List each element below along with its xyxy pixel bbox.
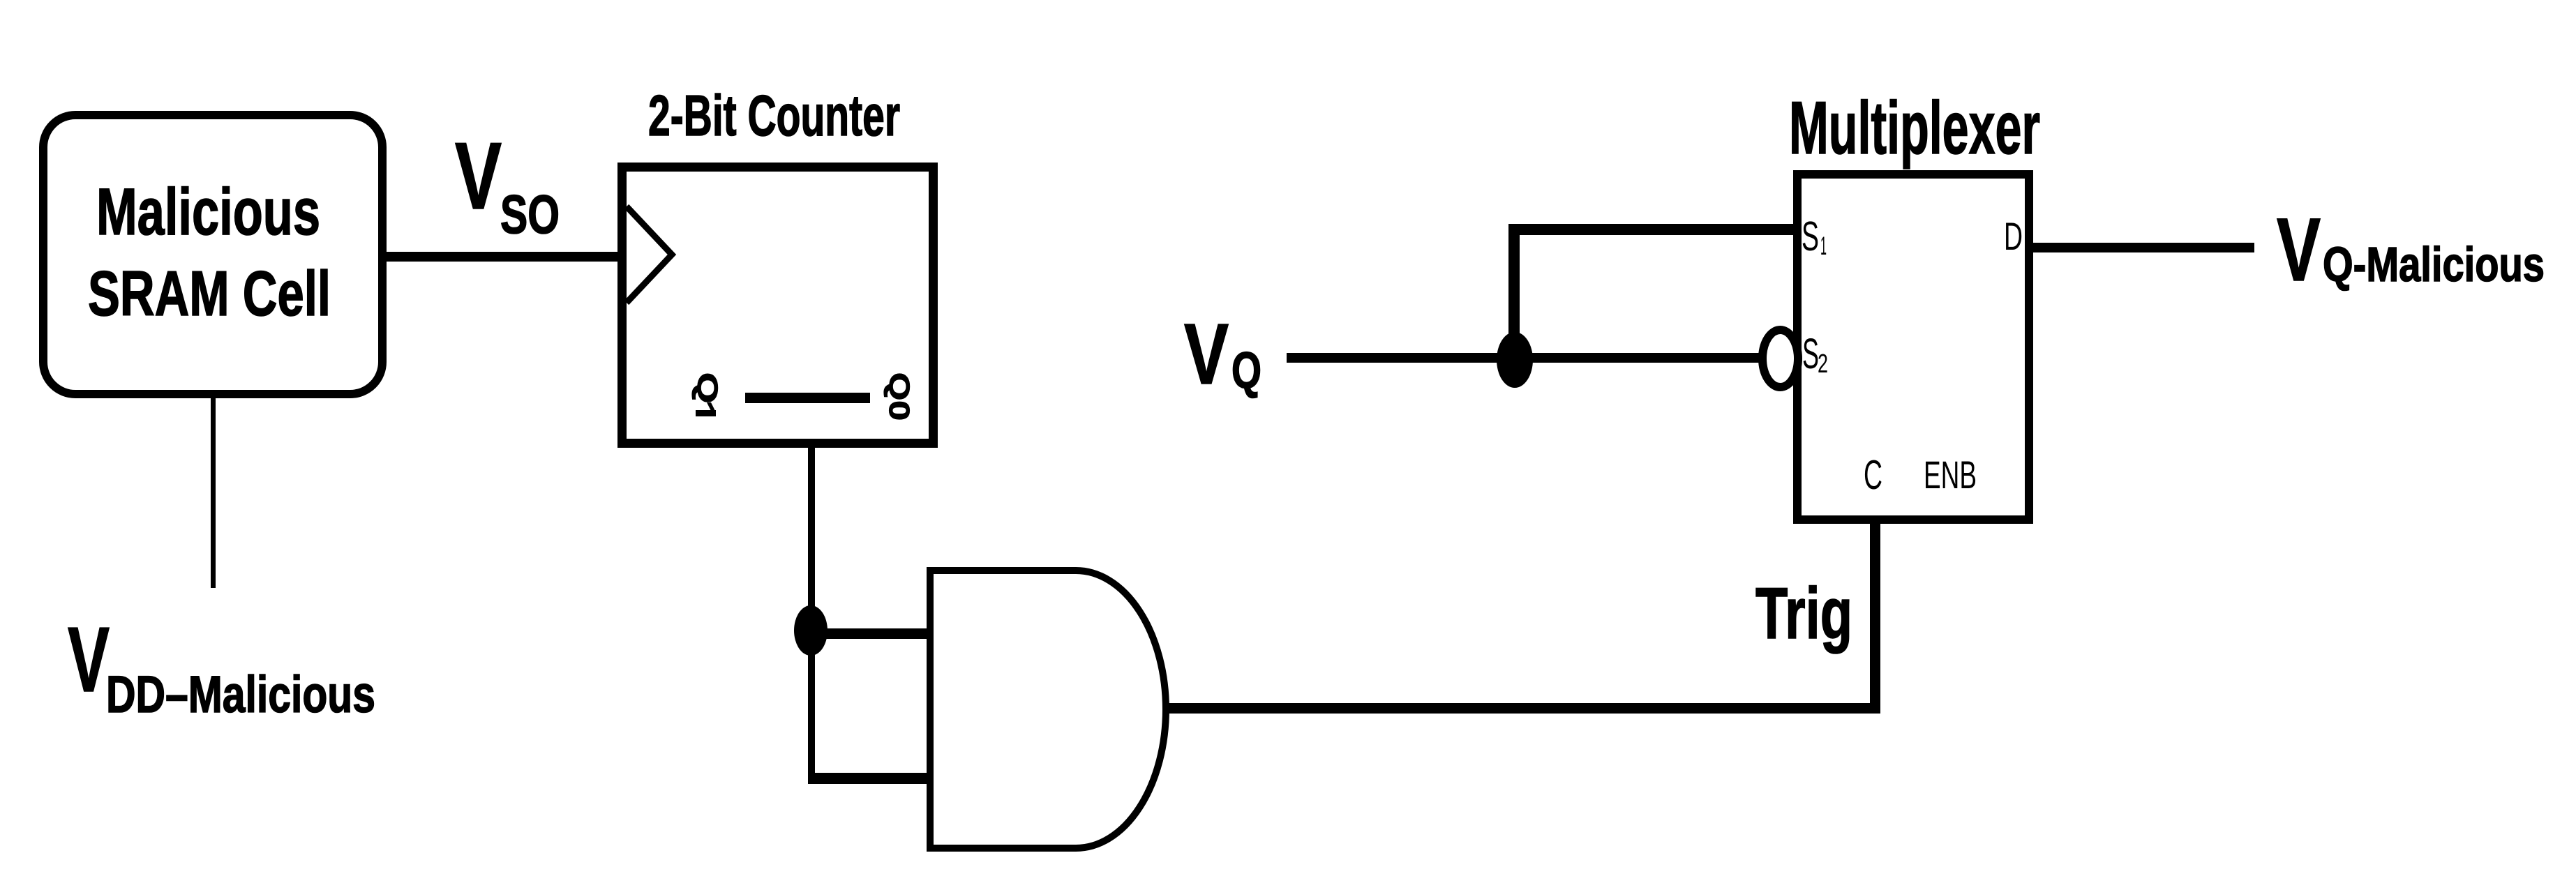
wire lower AND input stub	[808, 773, 931, 784]
block U2: 2-Bit Counter	[622, 83, 934, 444]
svg-text:V: V	[68, 608, 110, 711]
svg-text:V: V	[2277, 200, 2321, 300]
svg-text:S: S	[1802, 213, 1819, 259]
wire net VDD-Malicious from SRAM cell bottom	[211, 394, 216, 588]
wire upper AND input stub	[811, 628, 931, 639]
pin label ENB	[1924, 453, 1977, 497]
svg-text:Q0: Q0	[883, 372, 915, 421]
block U4: Multiplexer	[1789, 86, 2040, 520]
svg-text:S: S	[1802, 330, 1819, 377]
svg-text:ENB: ENB	[1924, 453, 1977, 497]
wire net VQ-Malicious from D output	[2029, 243, 2254, 252]
wire from counter output down to AND gate inputs	[808, 444, 815, 783]
wire from node B up and right to S1 pin	[1508, 224, 1797, 361]
label VDD-Malicious	[68, 608, 375, 723]
svg-text:V: V	[455, 123, 502, 229]
pin Q0 label (rotated)	[883, 372, 915, 421]
svg-text:C: C	[1864, 452, 1882, 498]
label VQ	[1184, 307, 1261, 402]
svg-text:Trig: Trig	[1755, 573, 1852, 654]
pin Q1 label (rotated)	[691, 372, 724, 416]
svg-text:SRAM Cell: SRAM Cell	[88, 259, 331, 329]
junction node B on VQ wire	[1497, 332, 1533, 388]
svg-text:D: D	[2004, 214, 2023, 258]
pin CLK: clock input triangle of counter	[627, 206, 672, 303]
junction node A on counter output wire	[794, 605, 828, 656]
pin label D	[2004, 214, 2023, 258]
overbar between Q1 and Q0	[745, 393, 870, 403]
wire net VQ to S2 bubble	[1287, 353, 1767, 363]
svg-text:2-Bit Counter: 2-Bit Counter	[648, 83, 900, 148]
inversion bubble at S2 input	[1762, 330, 1798, 387]
label Trig	[1755, 573, 1852, 654]
svg-text:2: 2	[1818, 349, 1828, 379]
svg-text:Malicious: Malicious	[96, 175, 320, 249]
block U1: Malicious SRAM Cell	[43, 115, 382, 394]
svg-text:Q: Q	[691, 372, 724, 403]
svg-text:SO: SO	[500, 183, 560, 245]
wire net Trig: AND output to multiplexer C pin	[1162, 519, 1880, 714]
pin label S2	[1802, 330, 1828, 379]
svg-text:Multiplexer: Multiplexer	[1789, 86, 2040, 169]
wire net VSO from SRAM cell to counter clock	[382, 252, 622, 262]
svg-text:DD–Malicious: DD–Malicious	[106, 665, 375, 723]
AND gate U3	[930, 571, 1166, 848]
svg-text:Q-Malicious: Q-Malicious	[2323, 237, 2545, 292]
svg-text:V: V	[1184, 307, 1229, 402]
label VSO	[455, 123, 560, 245]
svg-text:1: 1	[1820, 232, 1827, 260]
label VQ-Malicious	[2277, 200, 2545, 300]
pin label C	[1864, 452, 1882, 498]
pin label S1	[1802, 213, 1827, 260]
svg-text:Q: Q	[1231, 342, 1261, 399]
